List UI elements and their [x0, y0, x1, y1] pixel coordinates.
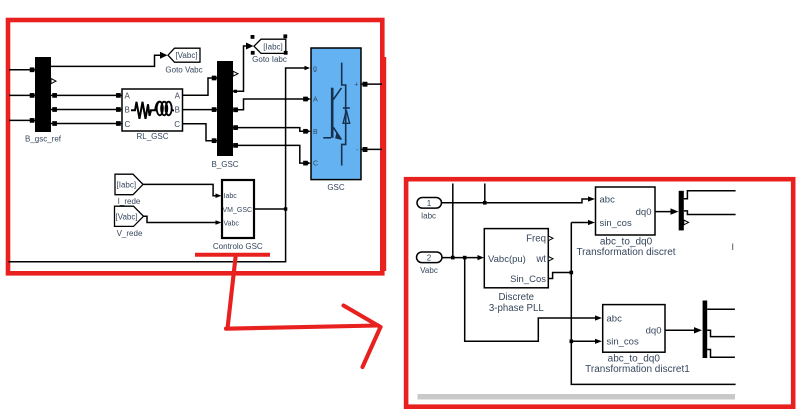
- svg-text:Controlo GSC: Controlo GSC: [213, 242, 263, 251]
- red arrow to right panel: [226, 258, 381, 368]
- PLL Freq unconnected arrow: [548, 236, 553, 241]
- right panel red frame: [406, 179, 793, 407]
- svg-text:A: A: [175, 91, 181, 100]
- inport 1: [417, 198, 442, 209]
- svg-text:A: A: [313, 97, 318, 104]
- wire: Iabc to abc_to_dq0: [442, 199, 589, 203]
- svg-text:I_rede: I_rede: [118, 197, 141, 206]
- wire: control signal to GSC g: [286, 68, 305, 209]
- svg-text:B_GSC: B_GSC: [211, 160, 238, 169]
- wire: B_GSC to GSC A: [233, 97, 307, 111]
- wire: V_rede to Controle GSC: [144, 216, 217, 222]
- PLL wt unconnected arrow: [548, 256, 553, 261]
- svg-text:+: +: [354, 82, 358, 89]
- demux2 out wire 1: [707, 308, 735, 310]
- red underline (Controle GSC): [195, 253, 270, 257]
- junction dots on Vabc wire: [451, 256, 455, 260]
- wire: RL_GSC C to B_GSC: [183, 124, 218, 143]
- svg-text:C: C: [313, 161, 318, 168]
- svg-text:abc: abc: [600, 194, 616, 205]
- wire: dq0 #1 to demux 1: [655, 211, 672, 213]
- wire: I_rede to Controle GSC: [143, 184, 216, 195]
- svg-text:sin_cos: sin_cos: [600, 218, 632, 229]
- svg-text:abc_to_dq0: abc_to_dq0: [600, 237, 653, 248]
- wire: RL_GSC B to B_GSC: [183, 108, 218, 111]
- svg-text:[Iabc]: [Iabc]: [117, 180, 137, 189]
- wire: B_gsc_ref to RL_GSC C: [51, 122, 122, 125]
- svg-text:B_gsc_ref: B_gsc_ref: [25, 135, 62, 144]
- goto tag Iabc (selected): [254, 39, 286, 53]
- svg-text:Iabc: Iabc: [421, 212, 436, 221]
- svg-text:C: C: [125, 120, 131, 129]
- from tag V_rede: [115, 206, 144, 226]
- wire: RL_GSC A to B_GSC: [183, 76, 218, 95]
- svg-text:I: I: [732, 242, 735, 252]
- svg-text:Freq: Freq: [526, 234, 546, 245]
- wire: B_GSC to GSC C: [233, 144, 307, 165]
- block abc_to_dq0 #2: [603, 305, 665, 353]
- wire: sin_cos branch into block 2: [571, 340, 595, 342]
- RL icon: resistor: [131, 102, 156, 119]
- RL icon: inductor: [155, 102, 174, 116]
- left panel red frame: [8, 20, 382, 273]
- junction on control wire: [284, 207, 287, 210]
- svg-text:wt: wt: [535, 254, 546, 265]
- svg-text:Discrete: Discrete: [499, 292, 535, 303]
- demux1 unconnected arrow: [684, 220, 689, 225]
- svg-text:C: C: [174, 120, 180, 129]
- svg-text:Vabc: Vabc: [224, 221, 240, 228]
- wire: GSC - output stub: [361, 148, 382, 151]
- block B_GSC: [217, 61, 233, 156]
- svg-text:3-phase PLL: 3-phase PLL: [489, 303, 545, 314]
- block Discrete 3-phase PLL: [484, 229, 548, 288]
- wire: VM_GSC output feedback: [8, 209, 285, 262]
- svg-text:g: g: [313, 66, 317, 73]
- svg-text:[Vabc]: [Vabc]: [116, 212, 138, 221]
- wire: B_GSC to GSC B: [233, 126, 307, 133]
- wire: B_gsc_ref top output to Goto Vabc: [51, 55, 161, 66]
- junction on Iabc wire: [483, 201, 487, 205]
- svg-text:B: B: [175, 106, 180, 115]
- junction sin_cos branch 2: [570, 340, 574, 344]
- wire: B_gsc_ref to RL_GSC B: [51, 108, 122, 111]
- svg-text:Sin_Cos: Sin_Cos: [510, 274, 546, 285]
- goto tag Vabc: [168, 48, 200, 62]
- block Controle GSC: [222, 180, 254, 238]
- stub wire vertical 2: [484, 184, 486, 203]
- demux1 out wire 1: [684, 191, 736, 199]
- demux 1: [679, 191, 684, 231]
- svg-text:Vabc: Vabc: [420, 266, 438, 275]
- inport 2: [417, 252, 443, 263]
- svg-text:dq0: dq0: [646, 325, 662, 336]
- svg-text:B: B: [125, 106, 130, 115]
- svg-text:V_rede: V_rede: [117, 229, 143, 238]
- demux 2: [703, 301, 708, 359]
- GSC IGBT/diode icon: [323, 63, 345, 166]
- svg-text:1: 1: [427, 199, 432, 208]
- wire: Sin_Cos output: [548, 223, 735, 385]
- demux2 out wire 2: [707, 330, 735, 336]
- stub wire vertical 1: [452, 184, 454, 259]
- selection handles: [251, 34, 288, 54]
- svg-text:[Iabc]: [Iabc]: [263, 42, 283, 51]
- svg-text:dq0: dq0: [636, 207, 652, 218]
- svg-text:[Vabc]: [Vabc]: [175, 51, 197, 60]
- svg-text:GSC: GSC: [327, 183, 345, 192]
- wire: GSC + output stub: [361, 83, 382, 86]
- junction at Sin_Cos tap: [570, 271, 574, 275]
- svg-text:RL_GSC: RL_GSC: [136, 132, 168, 141]
- svg-text:Transformation discret: Transformation discret: [576, 247, 675, 258]
- wire: input 3 to B_gsc_ref: [9, 119, 35, 122]
- scrollbar: [418, 394, 736, 400]
- wire: B_gsc_ref to RL_GSC A: [51, 94, 122, 97]
- wire: input 2 to B_gsc_ref: [9, 94, 35, 97]
- wire: B_GSC meas output to Goto Iabc: [233, 46, 247, 91]
- block abc_to_dq0 #1: [596, 187, 656, 235]
- svg-text:Transformation discret1: Transformation discret1: [585, 364, 690, 375]
- from tag I_rede: [115, 174, 143, 195]
- svg-text:2: 2: [427, 253, 432, 262]
- block B_gsc_ref: [35, 57, 51, 132]
- svg-text:Vabc(pu): Vabc(pu): [488, 254, 526, 265]
- svg-text:abc: abc: [607, 313, 623, 324]
- block RL_GSC: [122, 89, 183, 131]
- svg-text:Goto Vabc: Goto Vabc: [165, 66, 202, 75]
- svg-text:sin_cos: sin_cos: [607, 337, 639, 348]
- port arrow unconnected on B_GSC: [233, 71, 238, 76]
- svg-text:Iabc: Iabc: [224, 193, 238, 200]
- wire: input 1 to B_gsc_ref: [9, 68, 35, 71]
- demux1 out wire 2: [684, 211, 736, 215]
- svg-text:Goto Iabc: Goto Iabc: [252, 55, 287, 64]
- demux2 out wire 3: [707, 350, 735, 358]
- wire: Vabc to PLL: [442, 257, 479, 259]
- svg-text:VM_GSC: VM_GSC: [223, 207, 253, 214]
- port arrow unconnected on B_gsc_ref: [51, 79, 56, 84]
- wire: dq0 #2 to demux 2: [665, 329, 695, 331]
- wire: Vabc branch to abc_to_dq0 #2: [465, 258, 596, 342]
- svg-text:B: B: [313, 129, 318, 136]
- svg-text:A: A: [125, 91, 131, 100]
- svg-text:abc_to_dq0: abc_to_dq0: [608, 354, 661, 365]
- block GSC (blue bridge): [311, 48, 361, 180]
